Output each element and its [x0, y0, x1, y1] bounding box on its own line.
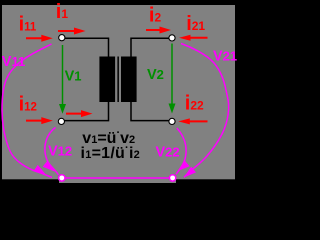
- node F: [169, 175, 175, 181]
- svg-text:V21: V21: [213, 48, 237, 64]
- current arrow i22: [189, 120, 208, 122]
- voltage curve V22: [176, 128, 186, 174]
- node A: [59, 35, 65, 41]
- current arrow i1: [58, 30, 76, 32]
- wire secondary bottom: [131, 102, 170, 121]
- transformer T1 core line: [117, 57, 119, 103]
- svg-text:V2: V2: [147, 67, 164, 83]
- wire primary bottom: [65, 102, 109, 121]
- node D: [169, 118, 175, 124]
- voltage curve V21: [181, 44, 229, 178]
- voltage curve V12: [45, 128, 59, 175]
- svg-text:V11: V11: [2, 54, 25, 70]
- voltage curve V11: [2, 44, 52, 177]
- current arrow i12: [26, 120, 43, 122]
- transformer T1 primary winding: [99, 57, 115, 103]
- wire secondary reference (bottom magenta): [64, 177, 171, 179]
- background canvas: [0, 0, 240, 183]
- current arrow i11: [26, 37, 43, 39]
- voltage arrow V1: [62, 45, 64, 105]
- node C: [58, 118, 64, 124]
- voltage arrow V2: [171, 44, 173, 105]
- transformer T1 secondary winding: [121, 57, 137, 103]
- current arrow primary bottom (unlabeled): [66, 113, 84, 115]
- node E: [59, 175, 65, 181]
- wire secondary top: [131, 38, 170, 56]
- wire primary top: [65, 38, 109, 56]
- current arrow i2: [146, 29, 160, 31]
- svg-text:V12: V12: [48, 144, 72, 160]
- node B: [169, 35, 175, 41]
- border frame: [0, 0, 240, 5]
- current arrow i21: [190, 37, 208, 39]
- svg-text:V22: V22: [156, 144, 180, 160]
- svg-text:V1: V1: [65, 68, 82, 84]
